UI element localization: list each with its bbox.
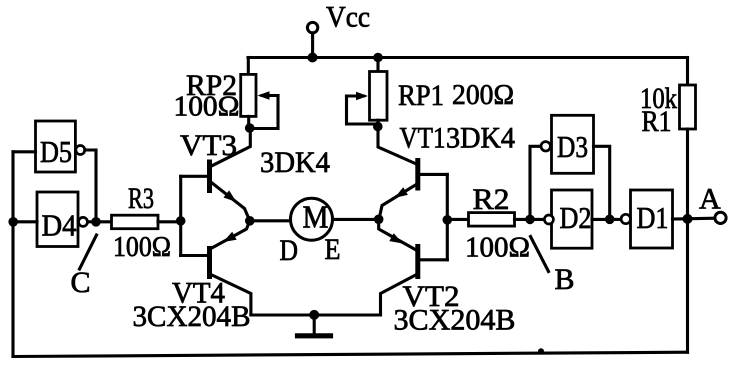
label VT1 type 3DK4 bbox=[446, 122, 515, 155]
junction D4 input node bbox=[8, 217, 18, 227]
svg-text:R1: R1 bbox=[642, 105, 672, 138]
svg-text:C: C bbox=[71, 266, 91, 299]
resistor R3 bbox=[96, 215, 181, 229]
gate D2 bbox=[544, 190, 592, 248]
label A bbox=[699, 183, 721, 216]
svg-text:D3: D3 bbox=[557, 129, 588, 164]
label VT1 bbox=[400, 122, 446, 155]
label VT3 type 3DK4 bbox=[260, 146, 330, 179]
junction Vcc rail bbox=[308, 53, 318, 63]
svg-text:VT1: VT1 bbox=[400, 122, 446, 155]
svg-text:D: D bbox=[280, 234, 299, 267]
svg-text:RP1: RP1 bbox=[398, 79, 444, 112]
label VT3 bbox=[180, 129, 237, 162]
label VT2 bbox=[403, 280, 460, 313]
svg-text:3CX204B: 3CX204B bbox=[133, 300, 251, 333]
motor M bbox=[291, 198, 333, 240]
gate D5 bbox=[36, 121, 85, 172]
wire D5 output bbox=[85, 150, 96, 222]
svg-text:R3: R3 bbox=[128, 182, 154, 215]
label Vcc bbox=[326, 1, 370, 34]
gate D3 bbox=[541, 115, 594, 173]
junction D2-D3 output node bbox=[605, 215, 615, 225]
svg-text:200Ω: 200Ω bbox=[452, 79, 514, 111]
junction left emitters node bbox=[245, 216, 255, 226]
svg-text:D2: D2 bbox=[560, 200, 592, 235]
label VT4 type 3CX204B bbox=[133, 300, 251, 333]
label motor terminal D bbox=[280, 234, 299, 267]
junction left bases node bbox=[176, 216, 186, 226]
wire D3 output bbox=[594, 146, 610, 219]
label R2 bbox=[473, 183, 510, 216]
svg-text:100Ω: 100Ω bbox=[113, 231, 171, 263]
label motor terminal E bbox=[325, 233, 341, 266]
transistor VT3 bbox=[181, 128, 251, 221]
wire top rail bbox=[248, 56, 688, 59]
svg-text:A: A bbox=[699, 183, 721, 216]
svg-text:100Ω: 100Ω bbox=[174, 91, 240, 123]
junction right bases node bbox=[443, 215, 453, 225]
label VT4 bbox=[172, 277, 225, 310]
junction right emitters node bbox=[374, 215, 384, 225]
transistor VT2 bbox=[379, 219, 448, 315]
svg-text:VT3: VT3 bbox=[180, 129, 237, 162]
wire motor right bbox=[333, 218, 379, 221]
label motor M bbox=[303, 199, 329, 235]
svg-text:100Ω: 100Ω bbox=[465, 232, 530, 264]
label D5 bbox=[40, 134, 72, 169]
junction D4 output node bbox=[91, 217, 101, 227]
label D2 bbox=[560, 200, 592, 235]
wire left border bbox=[11, 152, 14, 357]
wire node B to D3 input bbox=[530, 146, 541, 219]
wire motor left bbox=[250, 219, 291, 222]
svg-text:R2: R2 bbox=[473, 183, 510, 216]
label C bbox=[71, 266, 91, 299]
label RP2 value 100&#937; bbox=[174, 91, 240, 123]
junction node A bbox=[683, 214, 693, 224]
wire right base bus bbox=[446, 174, 449, 259]
gate D1 bbox=[621, 190, 672, 248]
terminal A bbox=[715, 212, 726, 223]
svg-text:3DK4: 3DK4 bbox=[446, 122, 515, 155]
resistor R1 bbox=[680, 58, 696, 353]
ground bbox=[298, 310, 331, 336]
wire D4 input bbox=[13, 220, 37, 223]
svg-text:E: E bbox=[325, 233, 341, 266]
label D3 bbox=[557, 129, 588, 164]
junction node B bbox=[525, 215, 535, 225]
label RP2 bbox=[186, 69, 237, 102]
resistor R2 bbox=[447, 213, 544, 227]
svg-text:3DK4: 3DK4 bbox=[260, 146, 330, 179]
svg-text:B: B bbox=[555, 263, 575, 296]
label B bbox=[555, 263, 575, 296]
wire D1 output bbox=[673, 217, 715, 221]
label R1 bbox=[642, 105, 672, 138]
wire D5 input bbox=[13, 150, 36, 153]
node B pointer bbox=[531, 237, 549, 272]
label D1 bbox=[637, 200, 669, 235]
potentiometer RP2 bbox=[241, 58, 278, 129]
wire ground rail bbox=[251, 313, 381, 316]
junction RP2 wiper bbox=[245, 123, 255, 133]
svg-text:Vcc: Vcc bbox=[326, 1, 370, 34]
svg-text:3CX204B: 3CX204B bbox=[394, 304, 516, 337]
wire left base bus bbox=[179, 176, 182, 255]
svg-text:D5: D5 bbox=[40, 134, 72, 169]
node C pointer bbox=[80, 235, 97, 269]
wire D2 output bbox=[592, 218, 621, 221]
label R2 value 100&#937; bbox=[465, 232, 530, 264]
svg-text:D1: D1 bbox=[637, 200, 669, 235]
svg-text:M: M bbox=[303, 199, 329, 235]
svg-text:D4: D4 bbox=[42, 208, 77, 243]
junction RP1 wiper bbox=[373, 122, 383, 132]
label RP1 value 200&#937; bbox=[452, 79, 514, 111]
junction bottom wire mark bbox=[538, 348, 544, 354]
label R1 value 10k bbox=[640, 82, 677, 115]
transistor VT4 bbox=[181, 221, 251, 315]
wire D4 output bbox=[88, 220, 97, 223]
terminal Vcc bbox=[307, 22, 317, 57]
label R3 value 100&#937; bbox=[113, 231, 171, 263]
wire bottom border bbox=[13, 352, 688, 356]
label VT2 type 3CX204B bbox=[394, 304, 516, 337]
junction RP1 top bbox=[373, 53, 383, 63]
label RP1 bbox=[398, 79, 444, 112]
label D4 bbox=[42, 208, 77, 243]
potentiometer RP1 bbox=[347, 58, 388, 127]
gate D4 bbox=[37, 192, 88, 247]
label R3 bbox=[128, 182, 154, 215]
transistor VT1 bbox=[378, 127, 447, 220]
